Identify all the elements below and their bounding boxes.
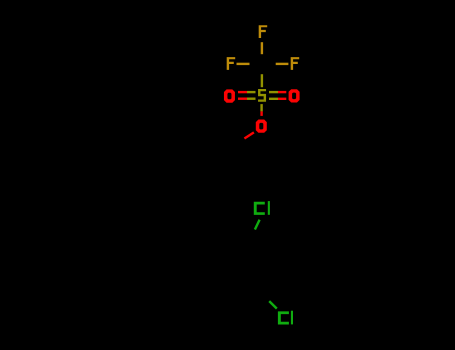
chlorine Cl1, l glyph <box>268 201 270 215</box>
wire bond S1-O3 (S half) <box>260 104 262 111</box>
wire double bond S1=O2 lower line (S half) <box>269 98 278 100</box>
chlorine Cl2, l glyph <box>291 311 293 325</box>
wire double bond S1=O2 upper line (O half) <box>278 91 286 93</box>
wire double bond S1=O1 lower line (S half) <box>247 97 256 99</box>
chlorine Cl1 (ortho), C glyph <box>254 202 265 215</box>
chlorine Cl2 (para), C glyph <box>278 311 289 324</box>
wire bond Cl1-C(aryl) (Cl half) <box>255 220 260 230</box>
wire bond O3-C(aryl) (O half) <box>244 132 254 138</box>
wire bond Cl2-C(aryl) (Cl half) <box>269 301 277 309</box>
fluorine F2 (left) <box>227 57 236 70</box>
wire double bond S1=O2 upper line (S half) <box>269 91 278 93</box>
wire double bond S1=O2 lower line (O half) <box>278 98 286 100</box>
wire double bond S1=O1 lower line (O half) <box>238 97 247 99</box>
wire bond C-F2 (F half) <box>237 63 250 65</box>
wire bond C-F1 (F half) <box>261 42 263 54</box>
fluorine F1 (top) <box>259 25 268 38</box>
wire bond C-F3 (F half) <box>276 63 289 65</box>
wire bond C-S1 (S half) <box>261 74 263 87</box>
oxygen O2 (right, S=O) <box>289 89 300 102</box>
wire double bond S1=O1 upper line (S half) <box>247 91 256 93</box>
oxygen O3 (ester, below S) <box>256 120 267 133</box>
sulfur S1 <box>258 89 266 102</box>
wire bond S1-O3 (O half) <box>260 111 262 116</box>
fluorine F3 (right) <box>291 57 300 70</box>
wire double bond S1=O1 upper line (O half) <box>238 91 247 93</box>
oxygen O1 (left, S=O) <box>224 89 235 102</box>
